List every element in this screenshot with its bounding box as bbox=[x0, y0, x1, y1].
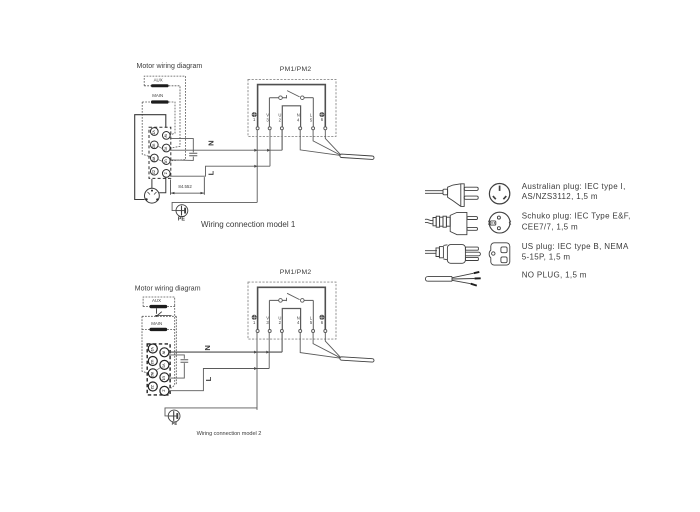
svg-text:N: N bbox=[207, 140, 216, 145]
svg-text:AS/NZS3112, 1,5 m: AS/NZS3112, 1,5 m bbox=[522, 192, 598, 201]
svg-text:Wiring connection model 2: Wiring connection model 2 bbox=[197, 431, 262, 437]
svg-text:US plug: IEC type B, NEMA: US plug: IEC type B, NEMA bbox=[522, 242, 629, 251]
svg-text:NO PLUG, 1,5 m: NO PLUG, 1,5 m bbox=[522, 270, 587, 279]
svg-text:Schuko plug: IEC Type E&F,: Schuko plug: IEC Type E&F, bbox=[522, 211, 631, 220]
svg-text:L: L bbox=[206, 170, 215, 175]
svg-text:MAIN: MAIN bbox=[151, 321, 162, 326]
svg-text:W: W bbox=[161, 351, 165, 355]
svg-text:MAIN: MAIN bbox=[152, 93, 163, 98]
svg-text:L: L bbox=[204, 376, 213, 381]
svg-text:PE: PE bbox=[172, 421, 178, 426]
svg-text:Z: Z bbox=[163, 172, 167, 174]
svg-text:5-15P, 1,5 m: 5-15P, 1,5 m bbox=[522, 253, 571, 262]
svg-text:V2: V2 bbox=[151, 130, 155, 134]
svg-text:U1: U1 bbox=[161, 376, 165, 381]
svg-text:Z2: Z2 bbox=[151, 170, 155, 174]
svg-text:PM1/PM2: PM1/PM2 bbox=[280, 269, 312, 276]
svg-text:Australian plug: IEC type I,: Australian plug: IEC type I, bbox=[522, 182, 626, 191]
svg-text:U1: U1 bbox=[163, 159, 167, 163]
svg-text:V1: V1 bbox=[161, 364, 165, 368]
svg-text:U2: U2 bbox=[150, 360, 154, 365]
svg-text:Motor wiring diagram: Motor wiring diagram bbox=[135, 286, 201, 293]
svg-text:V2: V2 bbox=[150, 347, 154, 351]
svg-text:84.552: 84.552 bbox=[178, 184, 192, 189]
svg-text:Motor wiring diagram: Motor wiring diagram bbox=[137, 63, 203, 70]
svg-text:V1: V1 bbox=[163, 147, 167, 151]
svg-text:PM1/PM2: PM1/PM2 bbox=[280, 66, 312, 73]
svg-text:W2: W2 bbox=[150, 372, 154, 377]
svg-text:Wiring connection model 1: Wiring connection model 1 bbox=[201, 220, 296, 229]
svg-text:U2: U2 bbox=[151, 144, 155, 148]
svg-text:AUX: AUX bbox=[152, 298, 161, 303]
svg-text:PE: PE bbox=[178, 216, 186, 222]
svg-text:W2: W2 bbox=[151, 157, 155, 162]
svg-text:AUX: AUX bbox=[154, 77, 163, 82]
svg-text:Z2: Z2 bbox=[150, 385, 154, 389]
svg-text:CEE7/7, 1,5 m: CEE7/7, 1,5 m bbox=[522, 223, 578, 232]
svg-text:N: N bbox=[203, 345, 212, 350]
